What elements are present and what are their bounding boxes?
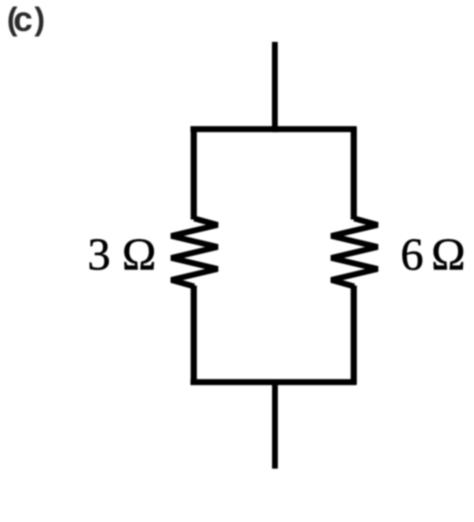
wire left upper xyxy=(191,126,197,219)
svg-text:(c): (c) xyxy=(7,0,45,39)
wire top bar xyxy=(190,126,356,132)
resistor R2 6Ω zigzag xyxy=(331,218,377,286)
wire left lower xyxy=(191,285,197,384)
wire top stub xyxy=(272,42,278,132)
wire bottom bar xyxy=(190,379,356,385)
svg-text:6Ω: 6Ω xyxy=(400,228,465,279)
wire bottom stub xyxy=(272,379,278,468)
wire right lower xyxy=(351,285,357,384)
wire right upper xyxy=(351,126,357,219)
resistor R1 3Ω zigzag xyxy=(171,218,217,286)
svg-text:3Ω: 3Ω xyxy=(87,228,156,279)
